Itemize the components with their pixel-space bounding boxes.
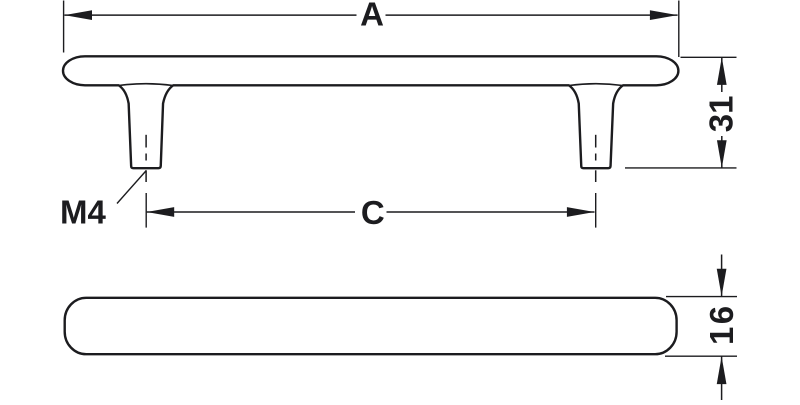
dimension 31 extension line bottom	[625, 167, 737, 169]
svg-text:16: 16	[703, 304, 740, 345]
dimension C extension line right	[595, 193, 597, 228]
dimension C arrow right	[567, 207, 595, 217]
dimension 16 extension line bottom	[665, 355, 737, 357]
dimension 31 line	[721, 57, 723, 168]
svg-text:31: 31	[703, 96, 740, 133]
dimension A line	[64, 14, 677, 16]
right leg dashed centerline	[595, 135, 597, 182]
dimension C line	[147, 211, 595, 213]
M4 leader line	[117, 171, 146, 204]
dimension A arrow left	[64, 10, 92, 20]
dimension A extension line right	[678, 1, 680, 58]
dimension C arrow left	[147, 207, 175, 217]
svg-text:M4: M4	[60, 193, 106, 230]
dimension 31 extension line top	[681, 56, 737, 58]
svg-text:A: A	[360, 0, 384, 33]
svg-text:C: C	[361, 194, 385, 231]
thin arc across left leg top	[119, 84, 173, 86]
dimension 16 arrow bottom	[717, 357, 727, 385]
dimension A extension line left	[63, 1, 65, 53]
dimension A arrow right	[650, 10, 678, 20]
handle bottom view outline	[65, 298, 677, 354]
dimension 16 line top tail	[721, 255, 723, 297]
dimension 16 line bottom tail	[721, 357, 723, 401]
dimension 16 arrow top	[717, 269, 727, 297]
dimension 31 arrow bottom	[717, 140, 727, 168]
left leg dashed centerline	[145, 135, 147, 182]
dimension C extension line left	[145, 193, 147, 228]
dimension 16 extension line top	[666, 296, 737, 298]
handle side view outline (bar with two legs)	[63, 56, 678, 168]
dimension 31 arrow top	[717, 57, 727, 85]
thin arc across right leg top	[569, 84, 623, 86]
